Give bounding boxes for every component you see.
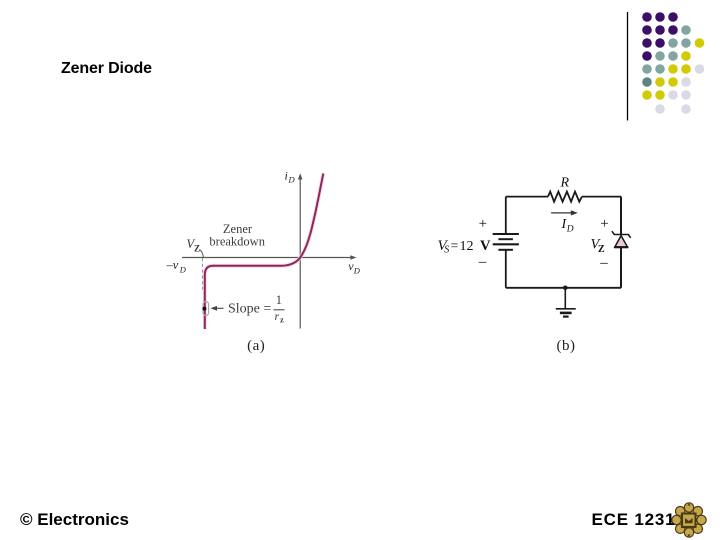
ground stem — [564, 288, 566, 309]
footer logo (gold rosette) — [672, 503, 706, 537]
zener + sign — [600, 216, 608, 232]
vertical rule — [627, 12, 629, 121]
svg-text:breakdown: breakdown — [209, 235, 265, 249]
footer right: ECE 1231 — [592, 510, 676, 530]
svg-text:D: D — [179, 265, 187, 275]
axis vD (horizontal) — [182, 255, 357, 260]
VZ leader tick — [200, 250, 204, 258]
svg-text:V: V — [480, 238, 491, 254]
slope arrow — [211, 306, 224, 311]
slope marker oval — [203, 302, 209, 316]
label VZ — [187, 237, 201, 254]
zener diode VZ : cathode bar with bent ends — [612, 231, 631, 238]
axis iD (vertical) — [298, 173, 303, 328]
svg-text:Z: Z — [194, 244, 200, 254]
zener diode base emphasis — [614, 246, 628, 248]
zener - sign — [599, 255, 608, 271]
svg-text:–v: –v — [166, 258, 179, 272]
dashed VZ guide line — [202, 258, 204, 290]
svg-text:+: + — [479, 216, 487, 232]
current ID arrow — [551, 210, 578, 215]
svg-text:D: D — [288, 175, 296, 185]
svg-text:r: r — [275, 309, 280, 323]
svg-text:=: = — [451, 238, 459, 253]
battery VS — [493, 234, 519, 250]
svg-text:Z: Z — [598, 244, 605, 255]
ground bars — [556, 309, 576, 317]
caption (a) — [247, 338, 265, 354]
svg-text:–: – — [478, 254, 487, 270]
svg-text:i: i — [285, 169, 288, 183]
label ID — [561, 217, 574, 234]
svg-text:1: 1 — [276, 293, 282, 307]
svg-text:12: 12 — [460, 239, 474, 254]
label R — [560, 176, 570, 191]
svg-text:Slope =: Slope = — [228, 302, 271, 317]
wire: right (bottom, from zener anode) — [620, 248, 622, 288]
footer left: © Electronics — [20, 510, 129, 530]
wire: top-right segment — [582, 196, 621, 198]
text: Zener breakdown — [209, 222, 265, 249]
caption (b) — [557, 338, 576, 354]
title: Zener Diode — [61, 60, 152, 78]
svg-text:D: D — [566, 224, 574, 234]
junction node dot — [563, 286, 568, 291]
zener diode VZ : triangle (anode, pointing up) — [615, 236, 628, 247]
resistor R — [548, 192, 582, 202]
svg-text:–: – — [599, 255, 608, 271]
label vD (right) — [348, 259, 361, 275]
svg-text:D: D — [353, 265, 361, 275]
svg-text:(a): (a) — [247, 338, 265, 354]
diode i-v curve — [205, 174, 323, 330]
wire: left (top of battery) — [505, 197, 507, 234]
slope marker dot — [202, 307, 206, 311]
label VS = 12 V — [438, 238, 492, 256]
wire: right (top, to zener cathode) — [620, 197, 622, 235]
text: Slope = 1/rz — [228, 293, 285, 325]
wire: top-left segment — [506, 196, 548, 198]
battery + sign — [479, 216, 487, 232]
battery - sign — [478, 254, 487, 270]
label iD — [285, 169, 296, 185]
wire: left (bottom of battery) — [505, 251, 507, 288]
wire: bottom — [506, 287, 621, 289]
svg-text:+: + — [600, 216, 608, 232]
label -vD (left) — [166, 258, 187, 275]
dot grid — [642, 12, 704, 114]
svg-text:z: z — [280, 315, 284, 325]
svg-text:S: S — [444, 245, 449, 256]
svg-text:(b): (b) — [557, 338, 576, 354]
label VZ (circuit) — [591, 236, 606, 255]
svg-text:R: R — [560, 176, 570, 191]
